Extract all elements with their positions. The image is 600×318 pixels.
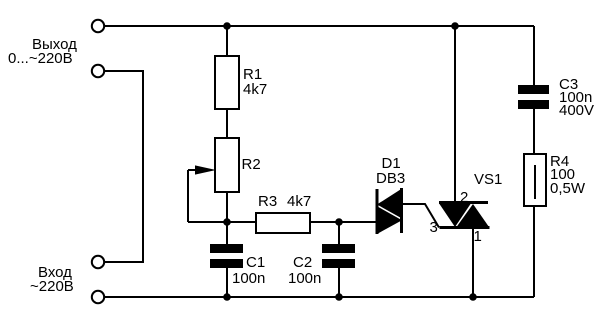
- svg-text:~220В: ~220В: [30, 278, 74, 295]
- svg-text:0...~220В: 0...~220В: [8, 50, 73, 67]
- svg-text:4k7: 4k7: [243, 81, 267, 98]
- svg-text:DB3: DB3: [376, 170, 405, 187]
- svg-text:4k7: 4k7: [287, 193, 311, 210]
- svg-text:3: 3: [430, 219, 438, 236]
- svg-text:100n: 100n: [288, 270, 321, 287]
- svg-text:2: 2: [460, 189, 468, 206]
- svg-text:0,5W: 0,5W: [550, 180, 586, 197]
- svg-text:C2: C2: [293, 254, 312, 271]
- svg-text:1: 1: [474, 228, 482, 245]
- svg-text:R2: R2: [242, 156, 261, 173]
- svg-text:VS1: VS1: [474, 171, 502, 188]
- svg-text:R3: R3: [258, 193, 277, 210]
- svg-text:100n: 100n: [232, 270, 265, 287]
- svg-text:C1: C1: [246, 254, 265, 271]
- svg-text:400V: 400V: [559, 102, 594, 119]
